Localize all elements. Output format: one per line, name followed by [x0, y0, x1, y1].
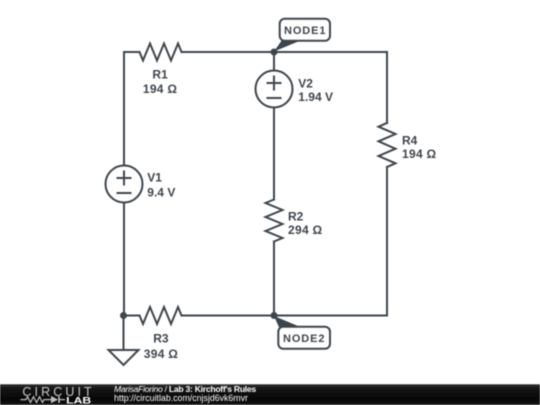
resistor R2 — [266, 200, 283, 242]
voltage source V2 — [256, 71, 293, 108]
svg-text:LAB: LAB — [66, 395, 92, 405]
svg-text:294 Ω: 294 Ω — [288, 223, 323, 237]
wire right vertical bottom — [386, 167, 388, 316]
svg-text:V1: V1 — [147, 171, 162, 185]
svg-text:394 Ω: 394 Ω — [144, 347, 179, 361]
wire top-left stub — [124, 51, 140, 53]
footer bar — [0, 384, 540, 405]
svg-text:R1: R1 — [152, 67, 168, 81]
wire middle bottom (R2 to node2 rail) — [273, 242, 275, 316]
svg-text:NODE1: NODE1 — [284, 25, 326, 37]
svg-text:V2: V2 — [298, 77, 313, 91]
wire bottom-left stub — [124, 315, 140, 317]
resistor R4 — [379, 123, 396, 167]
svg-text:194 Ω: 194 Ω — [402, 147, 437, 161]
wire top (R1 to top-right corner) — [182, 51, 388, 53]
wire ground stub — [123, 316, 125, 351]
voltage source V1 — [106, 166, 143, 203]
wire middle top (node1 to V2) — [273, 52, 275, 71]
logo resistor-diode wire — [21, 396, 66, 403]
logo diode triangle — [51, 396, 58, 403]
svg-text:194 Ω: 194 Ω — [143, 82, 178, 96]
resistor R3 — [140, 307, 182, 324]
node NODE2 junction dot — [271, 312, 278, 319]
svg-text:1.94 V: 1.94 V — [298, 90, 333, 104]
svg-text:R3: R3 — [153, 332, 169, 346]
wire left vertical top (node1 rail to V1) — [123, 52, 125, 166]
wire left vertical bottom (V1 to node2 rail) — [123, 203, 125, 316]
node NODE2 flag — [274, 316, 330, 349]
resistor R1 — [140, 44, 182, 61]
node ground junction dot — [120, 312, 127, 319]
svg-text:9.4 V: 9.4 V — [147, 185, 175, 199]
svg-text:NODE2: NODE2 — [283, 333, 325, 345]
svg-text:R4: R4 — [402, 134, 418, 148]
wire bottom (R3 to bottom-right corner) — [182, 315, 388, 317]
wire middle (V2 to R2) — [273, 108, 275, 200]
wire right vertical top — [386, 52, 388, 123]
node NODE1 junction dot — [271, 49, 278, 56]
ground — [109, 350, 139, 365]
svg-text:R2: R2 — [288, 209, 304, 223]
svg-text:http://circuitlab.com/cnjsjd6v: http://circuitlab.com/cnjsjd6vk6mvr — [114, 393, 248, 403]
node NODE1 flag — [274, 19, 330, 52]
